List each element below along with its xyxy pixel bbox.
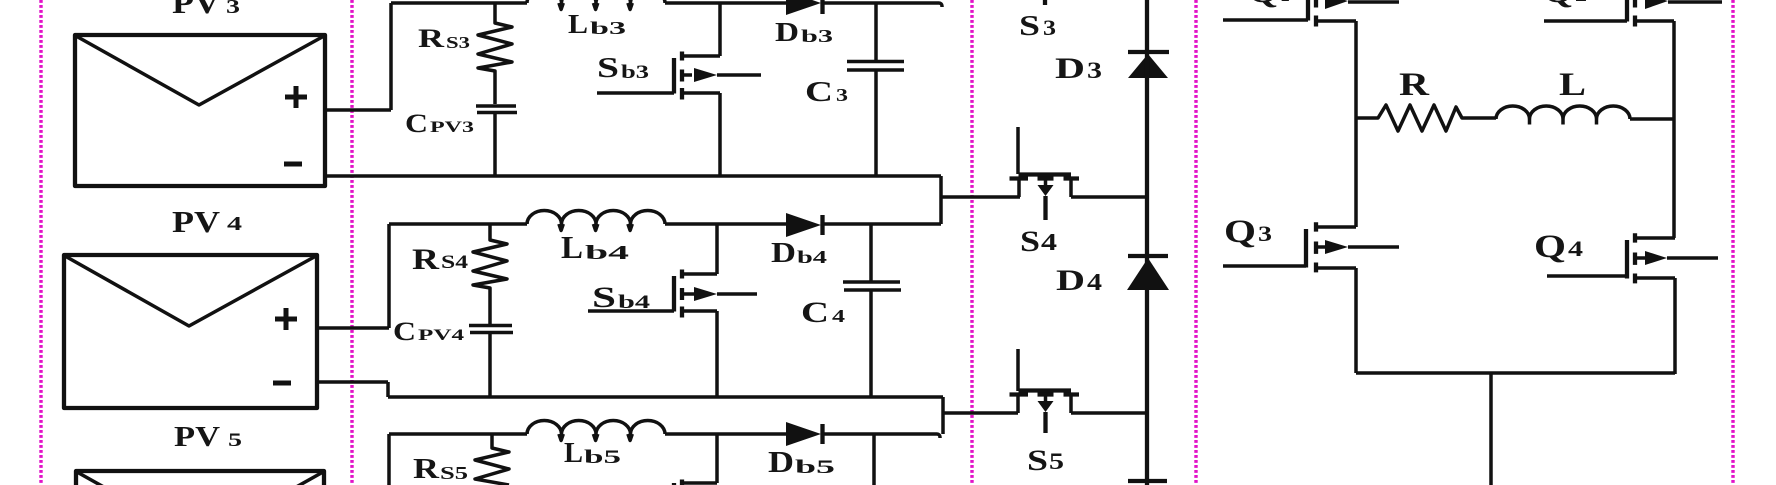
wire H-bridge right rail bbox=[1672, 21, 1676, 238]
wire PV3 plus lead bbox=[325, 108, 391, 112]
diode Db3 bbox=[786, 0, 823, 15]
section divider dotted line 1 bbox=[39, 0, 42, 485]
svg-text:b3: b3 bbox=[590, 18, 626, 38]
PV panel PV4 bbox=[64, 255, 317, 408]
wire PV4 plus lead bbox=[317, 326, 389, 330]
svg-text:D: D bbox=[768, 444, 794, 479]
svg-text:D: D bbox=[775, 17, 799, 47]
svg-text:3: 3 bbox=[226, 0, 240, 18]
svg-text:S: S bbox=[597, 52, 619, 84]
PV4 minus terminal bbox=[273, 381, 291, 386]
diode D5 partial bbox=[1128, 479, 1167, 483]
wire PV4 boost input riser bbox=[387, 224, 391, 328]
svg-text:b3: b3 bbox=[801, 26, 833, 46]
svg-text:D: D bbox=[771, 237, 796, 269]
wire PV3 row top bus bbox=[391, 1, 786, 5]
resistor RS3 bbox=[478, 3, 512, 104]
wire output tap bbox=[1489, 373, 1493, 485]
capacitor C5 lead partial bbox=[872, 434, 876, 485]
DC bus vertical bbox=[1145, 0, 1149, 485]
svg-text:4: 4 bbox=[227, 213, 242, 235]
svg-text:S4: S4 bbox=[441, 252, 469, 273]
svg-text:5: 5 bbox=[1049, 449, 1064, 474]
svg-text:1: 1 bbox=[1280, 0, 1290, 6]
capacitor CPV3 bbox=[476, 106, 517, 175]
svg-text:D: D bbox=[1055, 52, 1085, 85]
svg-text:3: 3 bbox=[1258, 221, 1272, 246]
wire PV5 boost input riser bbox=[387, 434, 391, 485]
svg-text:4: 4 bbox=[1041, 230, 1057, 256]
svg-text:S5: S5 bbox=[440, 463, 468, 483]
svg-text:PV3: PV3 bbox=[430, 119, 474, 136]
wire Db3 cathode to node bbox=[822, 3, 942, 7]
svg-text:Q: Q bbox=[1534, 229, 1566, 265]
MOSFET S3 partial arrow stem bbox=[1043, 0, 1047, 5]
svg-text:Q: Q bbox=[1248, 0, 1278, 10]
section divider dotted line 3 bbox=[970, 0, 973, 485]
MOSFET Q3 bbox=[1223, 222, 1399, 373]
capacitor C3 bbox=[847, 3, 904, 176]
svg-text:3: 3 bbox=[836, 85, 848, 105]
svg-text:b4: b4 bbox=[797, 247, 827, 267]
svg-text:Q: Q bbox=[1543, 0, 1573, 10]
svg-text:R: R bbox=[1399, 67, 1430, 103]
MOSFET S5 bbox=[1010, 349, 1148, 433]
inductor Lb5 bbox=[527, 421, 665, 441]
svg-text:L: L bbox=[1559, 67, 1586, 103]
svg-text:L: L bbox=[564, 437, 583, 469]
PV3 minus terminal bbox=[284, 162, 302, 167]
svg-text:C: C bbox=[405, 109, 428, 138]
MOSFET Q4 bbox=[1547, 233, 1718, 374]
wire node to S5 bbox=[943, 411, 1018, 415]
section divider dotted line 4 bbox=[1194, 0, 1197, 485]
svg-text:4: 4 bbox=[1568, 236, 1583, 261]
PV panel PV3 bbox=[75, 35, 325, 186]
svg-text:Q: Q bbox=[1224, 214, 1256, 250]
inductor Lb4 bbox=[527, 211, 665, 231]
diode D4 bbox=[1127, 256, 1169, 290]
svg-text:b3: b3 bbox=[621, 62, 649, 83]
wire node to S4 bbox=[941, 195, 1020, 199]
node bus bar PV3-neg / PV4-boost rect bbox=[326, 176, 941, 224]
svg-text:2: 2 bbox=[1575, 0, 1587, 6]
svg-text:S: S bbox=[1027, 444, 1048, 477]
wire H-bridge left rail bbox=[1354, 21, 1358, 227]
MOSFET Sb4 bbox=[588, 224, 757, 396]
resistor RS4 bbox=[473, 224, 507, 324]
inductor Lb3 bbox=[527, 0, 665, 10]
svg-text:C: C bbox=[393, 317, 416, 346]
section divider dotted line 5 bbox=[1731, 0, 1734, 485]
wire PV5 row top bus bbox=[389, 434, 940, 438]
svg-text:S: S bbox=[1019, 10, 1040, 42]
svg-text:PV4: PV4 bbox=[418, 327, 464, 344]
svg-text:C: C bbox=[801, 296, 829, 329]
PV panel PV5 bbox=[76, 471, 324, 485]
svg-text:C: C bbox=[805, 76, 833, 108]
svg-text:R: R bbox=[418, 24, 444, 53]
capacitor C4 bbox=[843, 224, 901, 396]
MOSFET Q1 partial bbox=[1223, 0, 1399, 27]
diode Db5 bbox=[786, 422, 823, 446]
svg-text:S: S bbox=[592, 281, 616, 314]
svg-text:4: 4 bbox=[1087, 270, 1102, 296]
diode Db4 bbox=[786, 213, 823, 237]
svg-text:5: 5 bbox=[228, 430, 242, 451]
PV3 plus terminal bbox=[285, 86, 307, 108]
svg-text:PV: PV bbox=[172, 204, 221, 239]
svg-text:S: S bbox=[1020, 225, 1040, 258]
resistor RS5 bbox=[475, 434, 509, 485]
MOSFET Sb5 partial bbox=[674, 434, 717, 485]
svg-text:3: 3 bbox=[1087, 58, 1102, 83]
node bus bar PV4-neg / PV5-boost rect bbox=[317, 382, 943, 434]
wire H-bridge bottom bbox=[1356, 371, 1675, 375]
svg-text:PV: PV bbox=[172, 0, 221, 20]
resistor R load bbox=[1356, 105, 1496, 131]
svg-text:PV: PV bbox=[174, 421, 220, 453]
diode D3 bbox=[1128, 52, 1169, 78]
PV4 plus terminal bbox=[275, 308, 297, 330]
svg-text:L: L bbox=[561, 229, 583, 265]
svg-text:b4: b4 bbox=[618, 292, 651, 313]
svg-text:4: 4 bbox=[832, 306, 845, 326]
svg-text:b5: b5 bbox=[584, 447, 621, 468]
svg-text:S3: S3 bbox=[446, 33, 470, 52]
wire PV4 row top bus bbox=[389, 222, 941, 226]
svg-text:b5: b5 bbox=[795, 457, 835, 478]
svg-text:R: R bbox=[412, 243, 439, 276]
svg-text:R: R bbox=[413, 453, 440, 485]
section divider dotted line 2 bbox=[350, 0, 353, 485]
capacitor CPV4 bbox=[469, 326, 513, 397]
inductor L load bbox=[1496, 106, 1674, 124]
MOSFET Sb3 bbox=[597, 3, 761, 176]
svg-text:3: 3 bbox=[1043, 15, 1056, 40]
svg-text:L: L bbox=[568, 9, 588, 39]
MOSFET S4 bbox=[1010, 127, 1148, 220]
svg-text:b4: b4 bbox=[585, 242, 629, 264]
wire PV3 boost input riser bbox=[389, 3, 393, 110]
MOSFET Q2 partial bbox=[1544, 0, 1722, 27]
svg-text:D: D bbox=[1056, 264, 1085, 297]
